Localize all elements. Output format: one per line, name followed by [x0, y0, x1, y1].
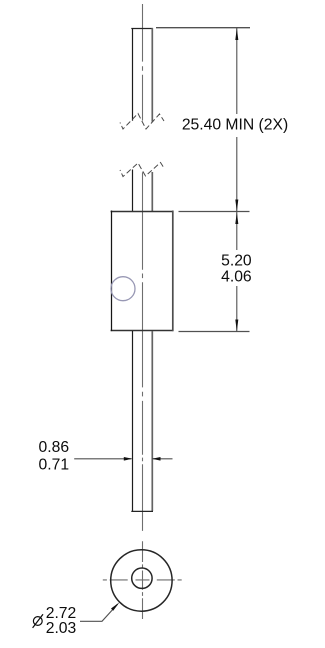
extension line (body top) — [179, 211, 250, 213]
svg-text:25.40 MIN (2X): 25.40 MIN (2X) — [182, 116, 288, 133]
lead L2 below body — [131, 331, 153, 511]
diameter symbol — [33, 614, 43, 628]
dimension line 25.40 MIN — [236, 28, 238, 212]
svg-text:0.86: 0.86 — [39, 439, 70, 456]
lead width dim: left arrow line — [74, 458, 131, 460]
svg-text:0.71: 0.71 — [39, 457, 70, 474]
svg-text:4.06: 4.06 — [221, 269, 252, 286]
bottom view: lead circle — [132, 568, 152, 588]
lead width dim: right arrowhead — [152, 457, 161, 461]
break mark (lower) — [120, 163, 164, 177]
arrow up at body top (5.20 dim) — [235, 212, 238, 224]
arrow up at lead top — [235, 28, 238, 40]
leader arrowhead — [111, 602, 120, 611]
dimension line 5.20/4.06 — [236, 212, 238, 332]
centerline axis main segment (body + lower lead) — [142, 172, 144, 531]
lead width dim: left arrowhead — [124, 457, 133, 461]
polarity band circle — [111, 277, 135, 301]
extension line (lead top) — [156, 27, 250, 29]
extension line (body bottom) — [179, 331, 250, 333]
bottom view horizontal centerline — [103, 579, 182, 581]
svg-text:5.20: 5.20 — [221, 252, 252, 269]
leader line for diameter dim — [80, 604, 118, 621]
break mark (upper) — [120, 114, 164, 130]
lead width dim: right arrow line — [153, 458, 173, 460]
lead segment above body — [133, 170, 153, 212]
body outline — [111, 211, 174, 332]
arrow down at body top (25.40 dim) — [235, 200, 238, 212]
bottom view vertical centerline — [142, 541, 144, 619]
bottom view: body circle — [111, 550, 172, 611]
lead L1 upper portion — [131, 28, 153, 122]
centerline axis upper segment (through upper lead) — [142, 4, 144, 121]
arrow down at body bottom — [235, 320, 238, 332]
svg-text:2.03: 2.03 — [46, 620, 77, 637]
